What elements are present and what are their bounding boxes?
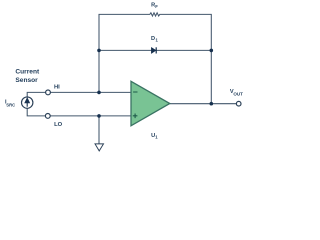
svg-text:SRC: SRC — [6, 103, 15, 108]
svg-text:F: F — [155, 4, 158, 9]
svg-text:OUT: OUT — [233, 91, 243, 96]
svg-text:HI: HI — [54, 85, 60, 91]
svg-text:D: D — [151, 36, 155, 42]
svg-text:Sensor: Sensor — [15, 77, 38, 84]
svg-text:LO: LO — [54, 122, 63, 128]
svg-text:Current: Current — [15, 69, 40, 76]
